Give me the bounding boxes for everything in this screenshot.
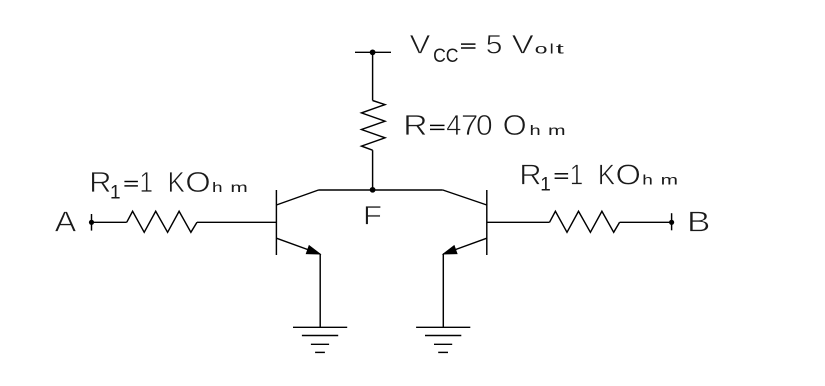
node F junction dot — [370, 187, 376, 193]
svg-text:O: O — [185, 167, 211, 199]
wire terminal A to resistor R1 left — [92, 221, 127, 223]
transistor Q2 base bar — [486, 190, 488, 255]
svg-text:o: o — [535, 41, 548, 57]
wire Q1 emitter to ground — [319, 254, 321, 327]
resistor R 470 Ohm (vertical zigzag) — [362, 101, 386, 151]
svg-text:B: B — [687, 207, 711, 239]
label R1 = 1 KOhm (right) — [519, 159, 678, 195]
input terminal A (tick and dot) — [89, 214, 94, 231]
svg-text:R: R — [89, 167, 111, 199]
svg-text:1: 1 — [110, 182, 121, 203]
wire resistor R1 left to Q1 base — [197, 221, 276, 223]
svg-text:h: h — [642, 171, 653, 187]
transistor Q1 base bar — [275, 190, 277, 255]
label VCC = 5 Volt — [410, 30, 565, 68]
transistor Q1 emitter with arrow — [276, 238, 320, 254]
ground symbol under Q2 — [416, 327, 470, 352]
svg-text:F: F — [363, 200, 382, 230]
svg-text:1: 1 — [540, 175, 551, 196]
wire resistor R1 right to terminal B — [620, 221, 672, 223]
svg-text:5: 5 — [486, 30, 503, 60]
svg-text:R: R — [403, 110, 428, 142]
input terminal B (tick and dot) — [669, 213, 674, 230]
svg-text:m: m — [230, 179, 247, 195]
wire Q1 collector diagonal — [276, 190, 318, 205]
svg-text:V: V — [512, 30, 534, 60]
resistor R1 right 1 KOhm (horizontal zigzag) — [550, 211, 620, 232]
label R1 = 1 KOhm (left) — [89, 167, 248, 203]
transistor Q2 emitter with arrow — [443, 238, 487, 254]
svg-text:h: h — [530, 122, 541, 138]
ground symbol under Q1 — [293, 327, 347, 352]
svg-text:K: K — [168, 167, 186, 199]
svg-text:A: A — [55, 207, 77, 239]
svg-text:l: l — [550, 41, 554, 57]
svg-text:V: V — [410, 30, 431, 60]
wire Q2 base to resistor R1 right — [487, 221, 550, 223]
svg-text:m: m — [661, 171, 678, 187]
svg-text:4: 4 — [446, 110, 461, 142]
svg-text:1: 1 — [570, 159, 584, 191]
svg-text:t: t — [556, 41, 564, 57]
svg-text:m: m — [548, 122, 566, 138]
wire VCC rail to resistor R top — [372, 52, 374, 100]
wire collector rail Q1 to Q2 — [319, 189, 443, 191]
wire Q2 emitter to ground — [442, 254, 444, 327]
label R = 470 Ohm — [403, 110, 565, 142]
svg-text:O: O — [503, 110, 527, 142]
wire resistor R bottom to node F — [372, 150, 374, 190]
power rail VCC (top bar) — [355, 51, 391, 53]
wire Q2 collector diagonal — [443, 190, 487, 205]
svg-text:1: 1 — [140, 167, 154, 199]
svg-text:K: K — [598, 159, 616, 191]
svg-text:h: h — [212, 179, 223, 195]
svg-text:R: R — [519, 159, 541, 191]
junction dot on VCC rail — [370, 49, 376, 55]
svg-text:CC: CC — [433, 46, 458, 67]
svg-text:0: 0 — [476, 110, 493, 142]
resistor R1 left 1 KOhm (horizontal zigzag) — [127, 211, 197, 232]
svg-text:O: O — [616, 159, 642, 191]
